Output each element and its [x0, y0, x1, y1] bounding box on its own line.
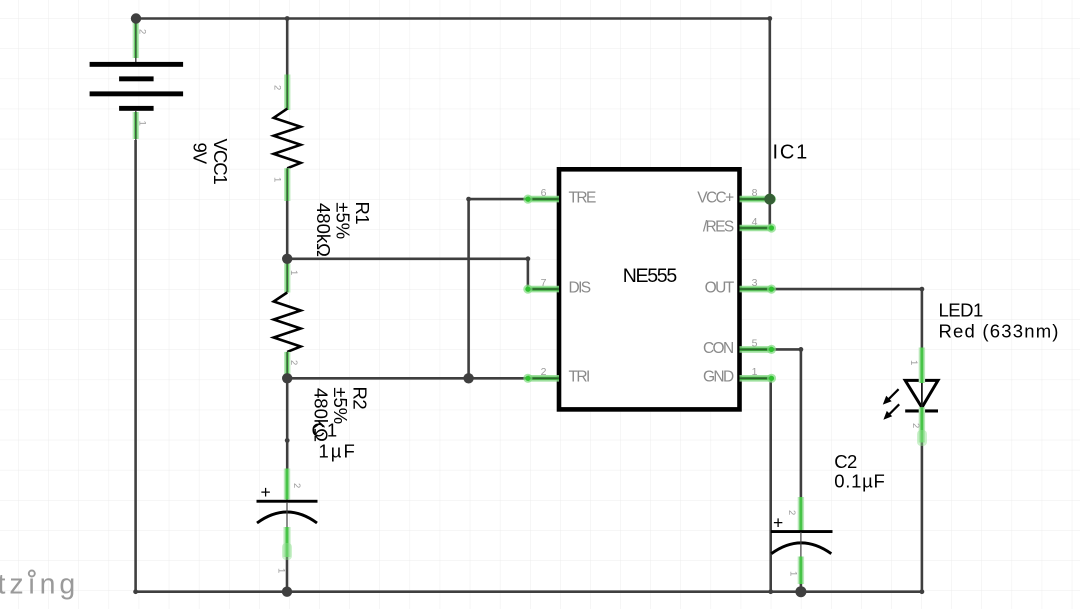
svg-text:R2: R2	[350, 387, 371, 410]
svg-text:VCC+: VCC+	[697, 190, 734, 207]
svg-text:C1: C1	[312, 420, 340, 441]
svg-text:0.1µF: 0.1µF	[834, 471, 885, 492]
svg-text:1: 1	[137, 121, 148, 126]
node battery positive / top bus	[131, 13, 141, 23]
svg-text:+: +	[261, 482, 271, 502]
svg-text:±5%: ±5%	[333, 202, 354, 239]
capacitor C1	[257, 440, 318, 560]
svg-text:2: 2	[137, 29, 148, 34]
svg-text:2: 2	[786, 510, 797, 515]
IC1 pin 8 VCC+ stub	[740, 195, 777, 204]
wire node B to TRI pin	[287, 377, 528, 380]
node bottom left corner	[133, 589, 138, 594]
svg-text:1µF: 1µF	[319, 440, 357, 461]
node TRI-TRE link junction	[463, 373, 473, 383]
svg-text:C2: C2	[834, 451, 857, 472]
node TRE corner	[466, 197, 471, 202]
wire GND pin 1 to bottom bus	[769, 378, 772, 591]
svg-text:4: 4	[752, 216, 758, 228]
svg-text:NE555: NE555	[623, 265, 678, 287]
node DIS corner	[526, 256, 531, 261]
wire CON to C2	[772, 349, 801, 497]
node top bus to R1 tap	[285, 16, 290, 21]
resistor R1 label R1 ±5% 480kΩ	[313, 202, 373, 258]
resistor R2 label R2 ±5% 480kΩ	[310, 387, 370, 443]
battery VCC1	[90, 19, 184, 141]
svg-text:Red (633nm): Red (633nm)	[939, 321, 1060, 342]
svg-text:9V: 9V	[190, 143, 211, 165]
svg-text:480kΩ: 480kΩ	[313, 203, 334, 257]
IC1 pin 1 GND stub	[740, 374, 777, 383]
IC1 pin 4 /RES stub	[740, 223, 777, 232]
node VCC pin8 junction	[764, 194, 775, 205]
svg-text:tzıng: tzıng	[0, 569, 79, 601]
node CON wire corner	[799, 347, 804, 352]
svg-text:OUT: OUT	[705, 280, 735, 297]
IC1 pin 3 OUT stub	[740, 285, 777, 294]
svg-text:2: 2	[288, 360, 299, 365]
svg-text:1: 1	[272, 177, 283, 182]
resistor R1	[274, 75, 301, 202]
svg-text:7: 7	[541, 277, 547, 289]
wire R1 to node A	[286, 201, 289, 259]
wire VCC column down to pin 8 and pin 4	[768, 19, 771, 229]
svg-text:R1: R1	[352, 202, 373, 225]
wire OUT to LED	[772, 289, 922, 347]
svg-text:5: 5	[752, 337, 758, 349]
svg-text:GND: GND	[703, 369, 734, 386]
svg-text:/RES: /RES	[703, 218, 734, 235]
wire battery negative down left side	[134, 140, 137, 592]
wire TRE link	[469, 199, 528, 378]
svg-text:IC1: IC1	[773, 141, 810, 163]
IC1 pin 7 DIS stub	[523, 285, 559, 294]
svg-text:TRE: TRE	[569, 190, 596, 207]
IC1 pin 6 TRE stub	[523, 195, 559, 204]
svg-text:DIS: DIS	[569, 280, 591, 297]
svg-text:3: 3	[752, 277, 758, 289]
svg-text:2: 2	[291, 483, 302, 488]
IC1 pin 5 CON stub	[740, 345, 777, 354]
capacitor C2	[771, 497, 833, 584]
IC1 pin 2 TRI stub	[523, 374, 559, 383]
svg-text:1: 1	[908, 360, 919, 365]
svg-text:8: 8	[752, 187, 758, 199]
wire top bus from battery to IC column	[136, 17, 770, 20]
node top bus right corner	[767, 16, 772, 21]
fritzing watermark	[0, 569, 79, 601]
svg-text:VCC1: VCC1	[210, 139, 231, 185]
node C2 bottom bus junction	[795, 586, 806, 597]
svg-text:1: 1	[752, 366, 758, 378]
wire C2 to bottom bus	[800, 583, 803, 592]
LED1	[883, 348, 938, 447]
svg-text:CON: CON	[703, 340, 733, 357]
svg-text:+: +	[773, 513, 783, 533]
wire bottom bus	[136, 590, 922, 593]
capacitor C1 label C1 1µF	[312, 420, 357, 462]
svg-text:2: 2	[541, 366, 547, 378]
svg-text:1: 1	[276, 568, 287, 573]
node C1 bottom bus junction	[282, 587, 292, 597]
wire node B down to C1	[286, 378, 289, 469]
svg-text:1: 1	[788, 571, 799, 576]
op-amp timer IC1 NE555 body	[559, 169, 740, 409]
LED1 label Red (633nm)	[939, 299, 1060, 341]
svg-text:2: 2	[272, 85, 283, 90]
svg-text:6: 6	[541, 187, 547, 199]
resistor R2	[274, 264, 301, 376]
node bottom right corner	[920, 589, 925, 594]
svg-text:LED1: LED1	[939, 299, 983, 320]
wire node A to DIS pin	[287, 259, 528, 289]
svg-text:1: 1	[288, 270, 299, 275]
node A R1-R2-DIS junction	[282, 254, 292, 264]
node GND wire bottom	[768, 589, 773, 594]
wire top bus to R1	[286, 19, 289, 76]
svg-text:2: 2	[910, 423, 921, 428]
wire LED cathode to bottom bus	[921, 443, 924, 592]
capacitor C2 label C2 0.1µF	[834, 451, 885, 491]
node C1 top wire end	[285, 438, 290, 443]
IC1 pin numbers	[541, 187, 758, 378]
node B R2-C1-TRI junction	[282, 373, 292, 383]
wire C1 to bottom bus	[286, 556, 289, 592]
battery label VCC1 9V	[190, 139, 232, 185]
svg-text:TRI: TRI	[569, 369, 589, 386]
IC1 pin name labels	[569, 190, 735, 386]
node OUT wire corner	[920, 287, 925, 292]
